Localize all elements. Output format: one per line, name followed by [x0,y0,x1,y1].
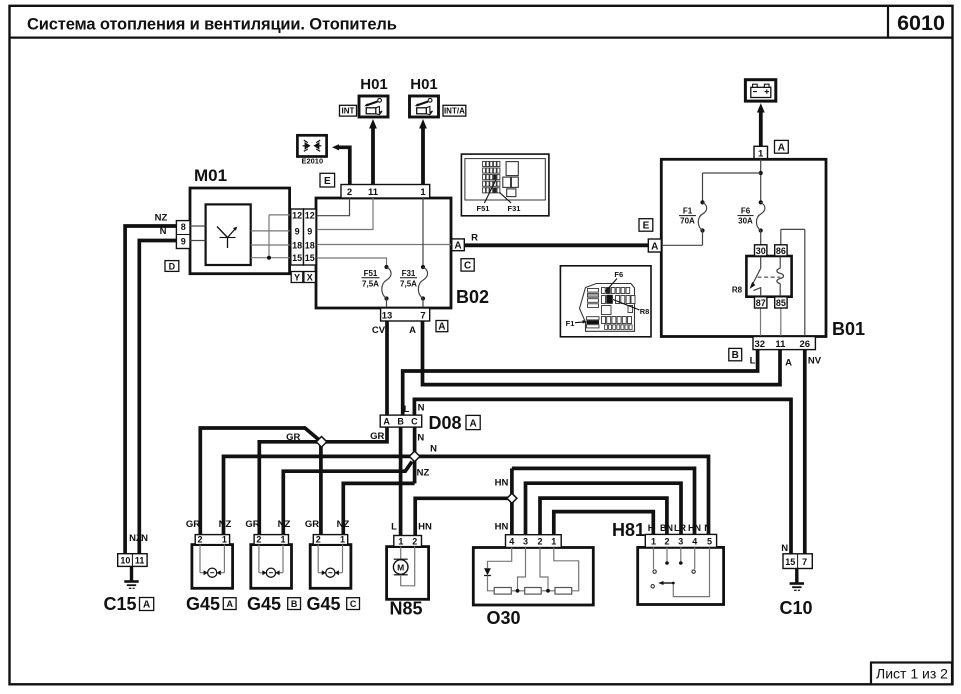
label box D [165,261,179,272]
svg-text:F6: F6 [614,270,623,279]
pin column B02 left 12 9 18 15 [303,209,316,265]
svg-text:15: 15 [292,253,302,263]
wire GR splice to G45/A pin 2 via upper run [200,428,318,535]
svg-text:A: A [785,357,792,368]
label box B at G45 [288,598,301,610]
svg-text:HN: HN [418,522,432,533]
wire GR splice to G45/C pin 2 [319,442,323,535]
svg-text:85: 85 [776,298,786,308]
wire 87 to pin 32 / 85 to pin 11 [761,308,781,337]
svg-text:B: B [732,350,739,361]
svg-text:D08: D08 [429,413,462,433]
wire NZ diagonal and bus to G45/B pin 1 [283,462,412,535]
svg-text:1: 1 [222,535,227,545]
svg-text:2: 2 [347,187,352,198]
svg-text:B: B [291,599,298,609]
wire H from O30 pin 1 to H81 pin 1 [554,512,654,535]
label box A at B01 top [775,140,789,153]
svg-text:L: L [391,522,397,533]
label box A at B02 bottom [436,321,448,333]
svg-text:F1: F1 [566,319,575,328]
svg-text:8: 8 [181,222,186,232]
node: junction under pin 1 [703,159,763,202]
svg-text:GR: GR [186,519,200,530]
connector strip B02/A pins 13 7 [381,308,430,321]
lamp G45 A [192,535,233,589]
label box X [304,272,316,283]
wire HN splice riser to O30 pin 4 and arc to H81 pin 4 [510,468,514,534]
svg-text:NZ: NZ [155,213,168,224]
svg-text:9: 9 [307,226,312,236]
M01 left pin box 8 9 [176,221,190,249]
svg-text:2: 2 [197,535,202,545]
svg-text:INT: INT [342,107,355,116]
svg-text:C: C [411,417,418,427]
svg-text:N: N [781,543,788,554]
svg-text:G45: G45 [307,594,341,614]
pin A at B02 right [452,239,465,251]
fuse F51 7,5A [362,265,392,308]
label box Y [291,272,303,283]
wire CV from B02 pin 13 to D08 pin A [385,321,389,415]
connector D08 [380,415,422,427]
svg-text:N: N [418,403,425,414]
svg-text:18: 18 [305,241,315,251]
wire GR from D08 pin A to splice [322,427,388,442]
svg-text:Система отопления и вентиляции: Система отопления и вентиляции. Отопител… [27,16,397,34]
svg-text:F6: F6 [741,207,751,216]
wire NZ bus to G45/C pin 1 [343,483,414,534]
svg-text:1: 1 [651,536,656,546]
svg-text:B01: B01 [832,319,865,339]
label box E at B01 left [639,219,653,232]
wire pin18 to pin A inside B02 [316,244,451,246]
svg-text:G45: G45 [186,594,220,614]
svg-text:E2010: E2010 [301,157,323,166]
svg-text:M: M [397,563,404,573]
sheet label box: Лист 1 из 2 [871,663,952,685]
wire N bus left to G45/A pin 1 [224,456,415,534]
fuse F6 30A [738,200,765,244]
wire pin15 to F51 [316,258,387,267]
lamp unit E2010 [297,135,326,156]
relay R8 [732,256,792,297]
svg-text:7: 7 [420,310,425,321]
ground at C10 [790,569,804,591]
ground at C15 [124,566,138,588]
wire N from D08 pin C down to splice and NZ riser [413,427,417,483]
control unit B01 [661,159,826,336]
svg-text:M01: M01 [194,166,227,185]
svg-text:A: A [469,418,476,429]
svg-text:12: 12 [292,210,302,220]
label box INT/A [443,105,466,116]
lamp G45 C [310,535,351,589]
wire H01 right arrow [419,119,427,185]
svg-text:HN: HN [688,523,701,533]
battery symbol [745,80,775,101]
svg-text:12: 12 [305,210,315,220]
svg-text:4: 4 [509,537,514,547]
svg-text:L: L [404,404,410,415]
svg-text:2: 2 [316,535,321,545]
svg-text:B: B [397,417,404,427]
splice HN [507,493,517,503]
M01 internal wires to pins [190,215,291,260]
svg-text:A: A [409,325,416,336]
motor unit M01 [190,188,290,274]
fuse F31 7,5A [400,198,428,308]
M01 inner actuator box [206,204,251,265]
svg-text:2: 2 [412,536,417,546]
svg-text:6010: 6010 [897,11,945,35]
svg-text:B02: B02 [456,287,489,307]
svg-text:11: 11 [135,556,145,566]
svg-text:BN: BN [660,523,673,533]
svg-text:GR: GR [286,432,300,443]
svg-text:1: 1 [280,535,285,545]
svg-text:D: D [169,261,176,271]
svg-text:G45: G45 [247,594,281,614]
svg-text:GR: GR [245,519,259,530]
wire LR from O30 pin 3 to H81 pin 3 [526,483,682,535]
svg-text:GR: GR [305,519,319,530]
svg-text:7,5A: 7,5A [400,280,417,289]
svg-text:1: 1 [551,537,556,547]
svg-text:9: 9 [295,226,300,236]
svg-text:30A: 30A [738,217,753,226]
wire battery to B01 pin 1 [757,103,765,146]
label box C [461,259,474,272]
relay pin 30 [755,245,767,256]
svg-text:11: 11 [775,339,786,350]
connector strip B02/E pins 2 11 1 [341,185,430,199]
svg-text:11: 11 [368,187,379,198]
fusebox inset picture F1/F6/R8 [560,266,651,337]
connector C15 [118,533,148,566]
heater control unit B02 [316,198,451,308]
relay pin 87 [755,297,767,308]
svg-text:N: N [417,433,424,444]
svg-text:F31: F31 [508,204,521,213]
svg-text:F1: F1 [683,207,693,216]
wire L from B01 pin 32 to D08 pin B [403,350,758,416]
label box B [729,348,742,361]
label box INT [340,105,357,116]
svg-text:2: 2 [256,535,261,545]
svg-text:LR: LR [674,523,686,533]
splice N/NZ [409,451,420,462]
svg-text:INT/A: INT/A [444,107,465,116]
svg-text:3: 3 [523,537,528,547]
svg-text:C: C [350,599,357,609]
svg-text:A: A [778,142,785,153]
svg-text:H01: H01 [360,76,388,93]
connector strip B01/B pins 32 11 26 [753,337,815,350]
svg-text:A: A [143,600,150,611]
wire N from M01 pin 9 to C15 pin 11 [139,241,176,554]
svg-text:N: N [160,226,167,237]
svg-text:2: 2 [664,536,669,546]
lamp G45 B [251,535,292,589]
label box A at D08 [466,415,480,429]
svg-text:1: 1 [758,149,764,160]
svg-text:NZ: NZ [337,519,350,530]
svg-text:N: N [704,523,711,533]
fuse F1 70A [661,200,706,245]
svg-text:N: N [141,533,148,544]
svg-text:A: A [454,240,461,251]
label box A at G45 [223,598,236,610]
resistors inside O30 [494,548,579,595]
svg-text:C15: C15 [104,594,137,614]
svg-text:HN: HN [495,478,509,489]
wire A from B02 pin 7 to B01 pin 11 [423,321,781,385]
wire NZ from M01 pin 8 to C15 pin 10 [125,226,176,554]
svg-text:2: 2 [537,537,542,547]
svg-text:F51: F51 [477,204,490,213]
svg-text:5: 5 [707,536,712,546]
svg-text:18: 18 [292,241,302,251]
wire pin11 to pin9 inside B02 [316,198,373,230]
svg-text:NZ: NZ [417,468,430,479]
svg-text:E: E [324,176,331,187]
svg-text:X: X [307,272,313,282]
svg-text:L: L [750,355,756,366]
svg-text:F51: F51 [364,269,378,278]
svg-text:26: 26 [800,339,811,350]
svg-text:H: H [648,523,655,533]
svg-text:A: A [226,599,233,609]
svg-text:C: C [464,261,471,272]
label box C at G45 [347,598,360,610]
svg-text:O30: O30 [487,608,521,628]
relay pin 86 [775,245,787,256]
motor N85 [387,536,429,600]
svg-text:C10: C10 [780,598,813,618]
svg-text:N85: N85 [390,599,423,619]
svg-text:9: 9 [181,236,186,246]
svg-text:7,5A: 7,5A [362,280,379,289]
svg-text:7: 7 [802,557,807,567]
wire pin2 to pin12 inside B02 [316,198,350,216]
switch H81 [638,534,724,604]
svg-text:NZ: NZ [278,519,291,530]
wire GR splice to G45/B pin 2 [259,442,321,535]
svg-text:GR: GR [370,431,384,442]
svg-text:R8: R8 [640,307,650,316]
wire BN from O30 pin 2 to H81 pin 2 [540,498,667,535]
wire HN from N85 pin 2 to splice [415,498,512,535]
wire H01 left arrow [369,119,377,185]
pin 1 connector at B01 top [754,146,768,159]
svg-text:NZ: NZ [219,519,232,530]
fusebox inset picture F51/F31 [461,154,549,216]
splice GR [316,437,327,448]
svg-text:15: 15 [785,557,795,567]
wire E2010 to B02 pin 2 [332,144,350,184]
svg-text:30: 30 [756,246,766,256]
svg-text:F31: F31 [402,269,416,278]
svg-text:10: 10 [120,556,130,566]
svg-text:HN: HN [495,522,509,533]
diode inside O30 [484,548,512,591]
wire NV from B01 pin 26 to C10 pin 7 [803,350,807,554]
svg-text:87: 87 [756,298,766,308]
wire N from D08 pin C to C10 pin 15 [414,399,791,553]
svg-text:CV: CV [372,325,386,336]
svg-text:NV: NV [808,355,822,366]
svg-text:1: 1 [340,535,345,545]
label box A at C15 [140,598,154,611]
pin A at B01 left [648,239,661,252]
wire N bus right to H81 pin 5 [415,456,709,534]
svg-text:H81: H81 [612,520,645,540]
svg-text:Лист 1 из 2: Лист 1 из 2 [876,666,948,682]
connector C10 [783,554,812,569]
svg-text:R8: R8 [732,286,743,295]
svg-text:R: R [471,233,478,244]
svg-text:1: 1 [398,536,403,546]
svg-text:1: 1 [420,187,426,198]
relay pin 85 [775,297,787,308]
svg-text:A: A [651,241,658,252]
svg-text:13: 13 [382,310,393,321]
wire L from D08 pin B to N85 pin 1 [399,427,403,536]
svg-text:Y: Y [294,272,300,282]
svg-text:N: N [430,444,437,455]
svg-text:15: 15 [305,253,315,263]
svg-text:A: A [383,417,390,427]
svg-text:E: E [643,221,650,232]
svg-text:A: A [438,322,445,333]
svg-text:H01: H01 [410,76,438,93]
svg-text:3: 3 [678,536,683,546]
wire 86 to pin 26 inside B01 [781,229,805,336]
svg-text:86: 86 [776,246,786,256]
svg-text:32: 32 [755,339,766,350]
svg-text:70A: 70A [680,217,695,226]
label box E at B02 top [320,173,335,187]
resistor unit O30 [473,535,593,605]
svg-text:4: 4 [692,536,697,546]
pin column M01 right 12 9 18 15 [291,209,304,265]
